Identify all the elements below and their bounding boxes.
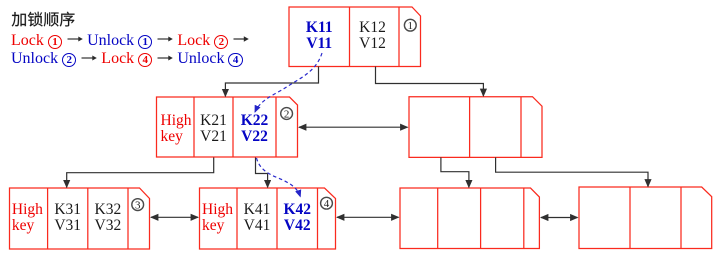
text K22 V22: [233, 113, 276, 145]
text High key (node 4): [202, 202, 240, 235]
wire node 2 to node 4: [256, 158, 268, 188]
text lock sequence line 2: [11, 49, 243, 68]
text K21 V21: [194, 113, 233, 145]
node 1 circled digit 1: [404, 19, 416, 32]
title 加锁顺序 (CJK glyph outlines): [12, 12, 75, 27]
svg-text:4: 4: [324, 198, 330, 210]
wire node 2b to node 6: [496, 157, 648, 186]
text K32 V32: [88, 202, 128, 235]
node 2 outline: [157, 97, 298, 157]
text K31 V31: [48, 202, 88, 235]
wire node 2 to node 3: [67, 158, 214, 188]
blue dashed arrow K22 to K42: [257, 158, 301, 197]
text K11 V11: [289, 20, 350, 52]
svg-text:3: 3: [135, 199, 141, 211]
svg-text:2: 2: [284, 108, 290, 120]
wire root to node 2b: [376, 67, 484, 97]
wire sibling link node2 - node2b: [299, 126, 408, 128]
wire sibling link node3 - node4: [151, 216, 198, 218]
wire root to node 2: [225, 67, 318, 97]
text High key (node 2): [161, 113, 199, 145]
node 3 circled digit 3: [132, 199, 144, 212]
node 2 circled digit 2: [281, 108, 293, 121]
svg-text:1: 1: [408, 20, 414, 32]
text K41 V41: [237, 202, 277, 235]
node 1 (root) outline: [289, 7, 421, 67]
wire node 2b to node 5: [441, 157, 469, 187]
wire sibling link node4 - node5: [337, 216, 399, 218]
node 4 outline: [200, 188, 336, 249]
blue dashed arrow K11 to K22: [255, 53, 322, 112]
node 3 outline: [10, 188, 150, 249]
text K12 V12: [347, 20, 399, 52]
wire sibling link node5 - node6: [541, 217, 578, 219]
node 4 circled digit 4: [321, 197, 333, 210]
node 2b (right internal, empty) outline: [409, 97, 542, 158]
text High key (node 3): [12, 202, 50, 235]
node 6 (empty leaf) outline: [579, 187, 712, 249]
node 5 (empty leaf) outline: [400, 188, 539, 249]
text K42 V42: [277, 202, 318, 235]
text lock sequence line 1: [11, 31, 249, 50]
